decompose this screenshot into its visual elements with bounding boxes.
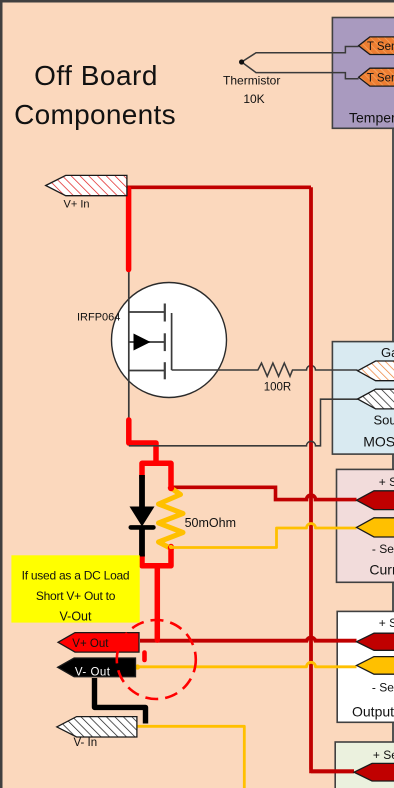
svg-text:50mOhm: 50mOhm	[185, 516, 236, 530]
svg-text:T Sense: T Sense	[367, 72, 394, 84]
svg-text:IRFP064: IRFP064	[77, 312, 120, 324]
svg-text:Output: Output	[352, 704, 394, 720]
svg-text:Short V+ Out to: Short V+ Out to	[36, 589, 116, 603]
svg-text:10K: 10K	[243, 92, 264, 106]
svg-text:V+ In: V+ In	[64, 199, 90, 211]
svg-text:MOSFET: MOSFET	[363, 433, 394, 449]
svg-text:Current: Current	[369, 562, 394, 578]
svg-text:- Sense: - Sense	[372, 542, 394, 556]
svg-text:V- Out: V- Out	[75, 666, 111, 678]
svg-text:V+ Out: V+ Out	[72, 638, 109, 650]
svg-text:Source: Source	[374, 413, 394, 428]
svg-text:+ Sense: + Sense	[373, 748, 394, 762]
svg-text:Temperature: Temperature	[349, 110, 394, 126]
svg-text:V-Out: V-Out	[60, 610, 92, 624]
svg-text:Gate: Gate	[381, 345, 394, 360]
svg-text:Off Board: Off Board	[34, 60, 158, 91]
svg-text:100R: 100R	[264, 382, 292, 394]
svg-text:- Sense: - Sense	[372, 681, 394, 695]
svg-text:+ Sense: + Sense	[379, 616, 394, 630]
svg-text:Components: Components	[14, 99, 176, 130]
svg-text:Thermistor: Thermistor	[223, 73, 280, 87]
svg-text:+ Sense: + Sense	[379, 475, 394, 489]
svg-text:If used as a DC Load: If used as a DC Load	[22, 569, 130, 583]
svg-text:V- In: V- In	[74, 737, 98, 749]
svg-text:T Sense: T Sense	[367, 41, 394, 53]
